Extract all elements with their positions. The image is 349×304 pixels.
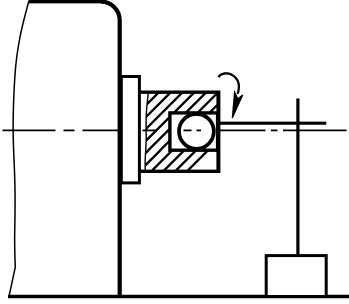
hatch upper+left band of sleeve section: [64, 85, 272, 175]
flange plate: [121, 77, 139, 183]
horizontal centerline (dash-dot axis): [3, 129, 347, 131]
stand base block: [266, 256, 326, 297]
indicator stand post: [296, 99, 299, 256]
rotation arrow head: [232, 92, 242, 118]
ground line: [8, 295, 349, 299]
rotation arrow arc: [218, 73, 239, 93]
sleeve break line (hatch left wavy boundary): [145, 91, 149, 173]
body break line (left wavy edge): [9, 1, 29, 295]
machine body top edge: [29, 0, 102, 3]
test rod from sleeve: [218, 122, 326, 125]
bearing housing (inner rectangle): [170, 113, 218, 150]
sleeve section bottom edge: [139, 170, 218, 173]
sleeve section right edge: [216, 91, 220, 174]
ball / roller circle: [179, 114, 214, 149]
hatch lower band of sleeve section: [83, 80, 278, 180]
sleeve section top edge: [139, 90, 218, 93]
machine body rounded corner and right edge: [101, 2, 120, 297]
